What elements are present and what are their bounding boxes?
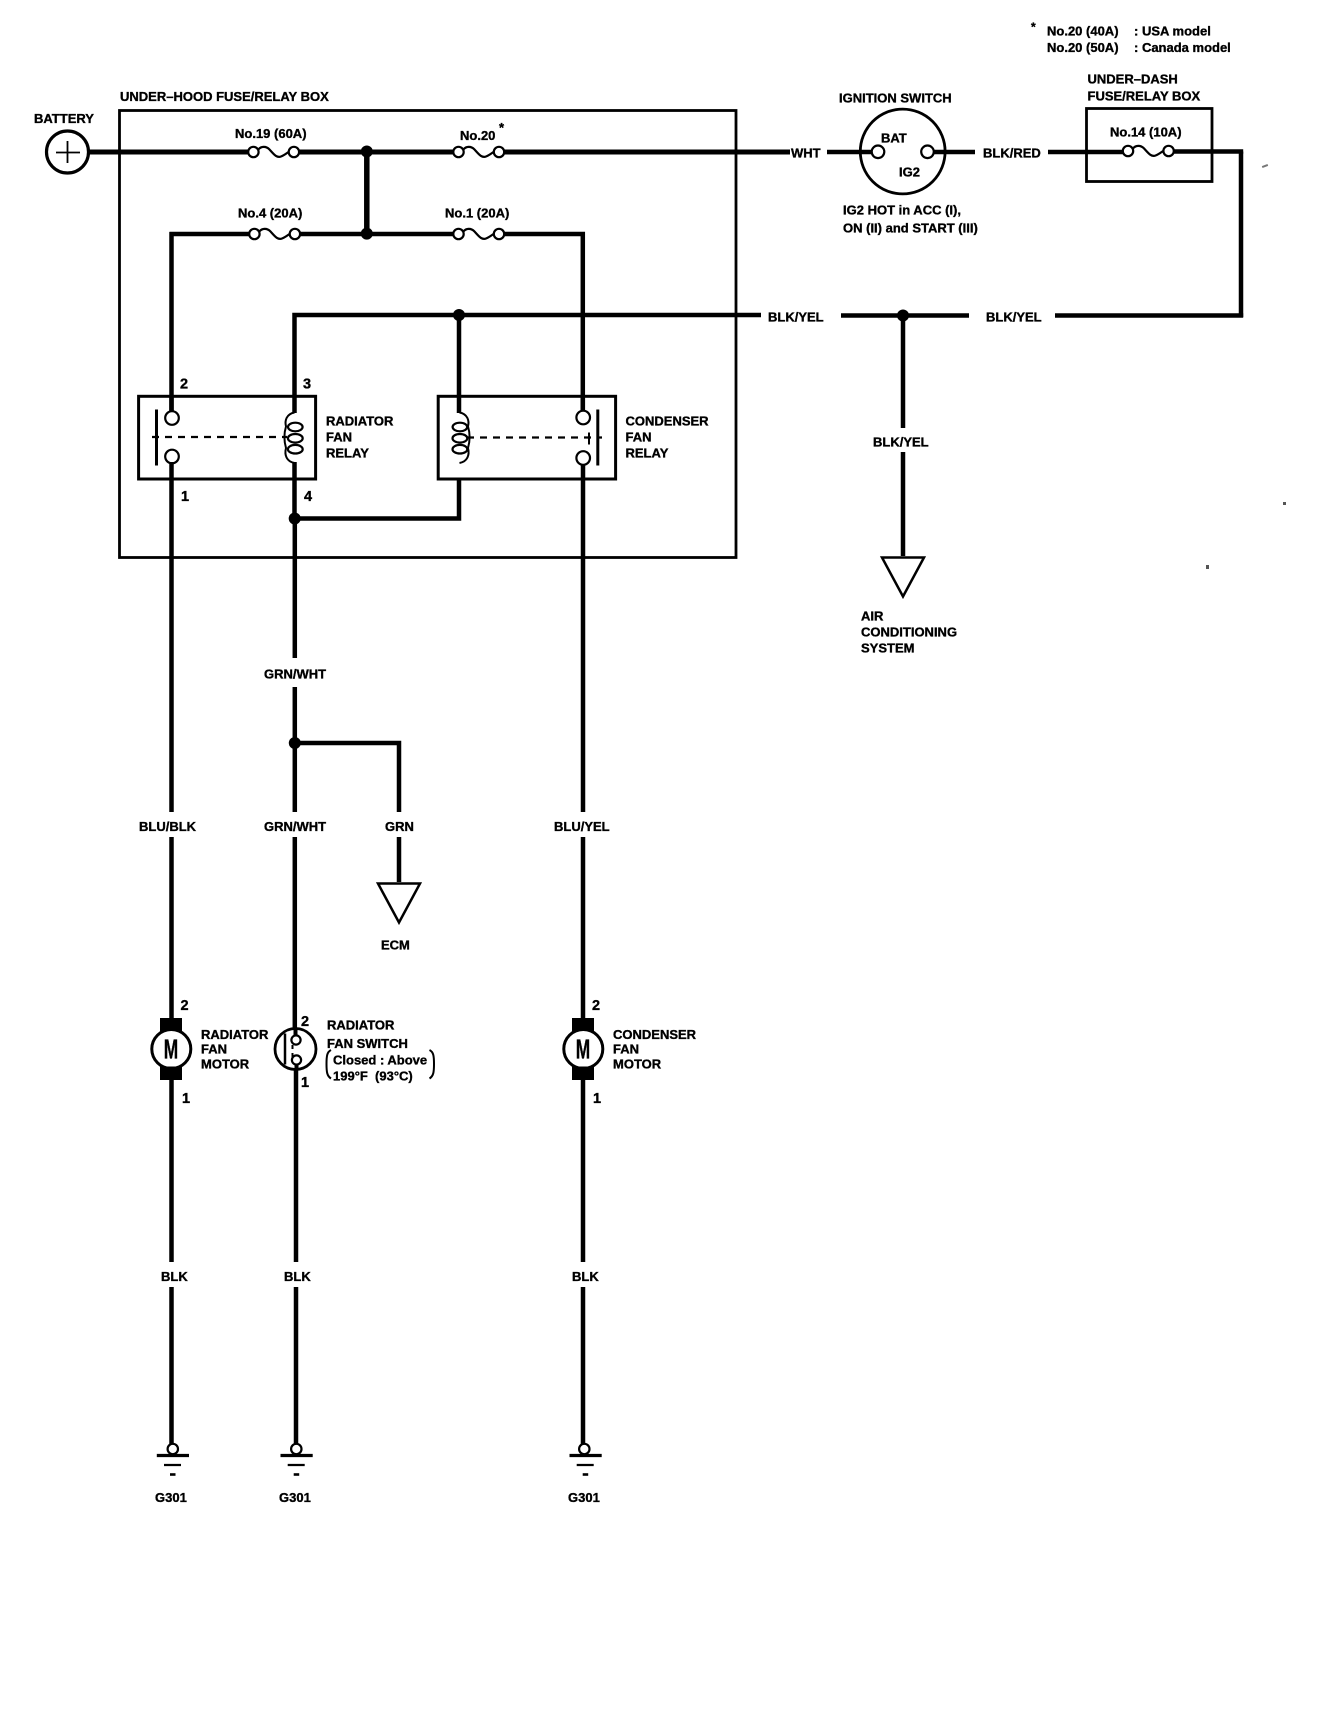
wire motor1 pin1 down bbox=[169, 1080, 174, 1262]
wire fuse No.20 to WHT label bbox=[505, 150, 791, 155]
ground G301 left bbox=[155, 1444, 189, 1505]
svg-text:M: M bbox=[164, 1033, 178, 1064]
scan smudge under-dash box bbox=[1262, 164, 1268, 168]
wire fuse No.4 to node B bbox=[300, 232, 367, 237]
wire fuse No.19 to node A bbox=[299, 150, 367, 155]
svg-text:*: * bbox=[499, 120, 505, 135]
svg-text:BLK/YEL: BLK/YEL bbox=[986, 310, 1042, 325]
wire fuse No.14 to right corner bbox=[1174, 149, 1243, 154]
wire relay1 pin2 stub bbox=[169, 396, 174, 412]
wire relay1 pin1 down bbox=[169, 462, 174, 812]
svg-text:1: 1 bbox=[182, 1091, 190, 1107]
svg-text:GRN: GRN bbox=[385, 819, 414, 834]
svg-text:2: 2 bbox=[301, 1014, 309, 1030]
svg-text:BLK: BLK bbox=[161, 1269, 188, 1284]
svg-text:BAT: BAT bbox=[881, 131, 907, 146]
fuse No.20 bbox=[453, 120, 505, 157]
svg-text:1: 1 bbox=[181, 489, 189, 505]
node E junction dot AC branch bbox=[897, 310, 909, 322]
svg-text:RADIATOR: RADIATOR bbox=[326, 414, 394, 429]
svg-text:AIR: AIR bbox=[861, 609, 884, 624]
under-dash fuse/relay box bbox=[1087, 72, 1213, 182]
svg-text:G301: G301 bbox=[279, 1490, 311, 1505]
svg-text:2: 2 bbox=[592, 998, 600, 1014]
under-hood fuse/relay box bbox=[120, 89, 737, 558]
radiator fan switch S1 bbox=[275, 1014, 434, 1091]
svg-text:MOTOR: MOTOR bbox=[613, 1057, 662, 1072]
arrow to ECM bbox=[378, 884, 420, 923]
svg-text:IG2: IG2 bbox=[899, 165, 920, 180]
svg-text:No.20: No.20 bbox=[460, 128, 495, 143]
svg-text:BLK/YEL: BLK/YEL bbox=[873, 435, 929, 450]
svg-text:BLU/YEL: BLU/YEL bbox=[554, 819, 610, 834]
svg-text:No.20 (50A): No.20 (50A) bbox=[1047, 40, 1119, 55]
svg-text:G301: G301 bbox=[155, 1490, 187, 1505]
wire condenser contact bottom down bbox=[581, 464, 586, 812]
node D junction dot coil branch bbox=[453, 309, 465, 321]
svg-text:ON (II) and START (III): ON (II) and START (III) bbox=[843, 221, 978, 236]
svg-text:BLK: BLK bbox=[284, 1269, 311, 1284]
svg-text:MOTOR: MOTOR bbox=[201, 1057, 250, 1072]
svg-text:1: 1 bbox=[301, 1075, 309, 1091]
footnote No.20 models bbox=[1031, 20, 1231, 55]
ground G301 right bbox=[568, 1444, 602, 1505]
svg-text:1: 1 bbox=[593, 1091, 601, 1107]
wire BLK/RED to under-dash box bbox=[1048, 150, 1123, 155]
wire relay1 pin4 to node C bbox=[292, 462, 297, 519]
svg-text:FAN SWITCH: FAN SWITCH bbox=[327, 1036, 408, 1051]
wire motor2 pin1 down bbox=[581, 1080, 586, 1262]
svg-text:RELAY: RELAY bbox=[326, 446, 369, 461]
svg-text:No.14 (10A): No.14 (10A) bbox=[1110, 125, 1182, 140]
svg-text:BATTERY: BATTERY bbox=[34, 111, 94, 126]
svg-text:FAN: FAN bbox=[626, 430, 652, 445]
svg-text:CONDENSER: CONDENSER bbox=[613, 1027, 697, 1042]
svg-text:UNDER–HOOD FUSE/RELAY BOX: UNDER–HOOD FUSE/RELAY BOX bbox=[120, 89, 329, 104]
wire BLK/YEL right segment bbox=[1055, 313, 1243, 318]
wire GRN/WHT upper segment bbox=[293, 519, 298, 658]
node F junction dot bbox=[289, 737, 301, 749]
wire GRN branch bbox=[295, 743, 399, 812]
svg-text:M: M bbox=[576, 1033, 590, 1064]
svg-text:RADIATOR: RADIATOR bbox=[327, 1018, 395, 1033]
wire node B to fuse No.1 bbox=[367, 232, 453, 237]
wire ignition to BLK/RED label bbox=[934, 150, 975, 155]
fuse No.1 (20A) bbox=[445, 206, 509, 240]
scan speck 1 bbox=[1283, 502, 1286, 505]
svg-text:199°F (93°C): 199°F (93°C) bbox=[333, 1069, 413, 1084]
svg-text:IGNITION SWITCH: IGNITION SWITCH bbox=[839, 91, 952, 106]
wire to ground 2 bbox=[294, 1287, 299, 1444]
ground G301 middle bbox=[279, 1444, 313, 1505]
node A junction dot bbox=[361, 146, 373, 158]
svg-text:UNDER–DASH: UNDER–DASH bbox=[1088, 72, 1178, 87]
svg-text:No.19 (60A): No.19 (60A) bbox=[235, 126, 307, 141]
wire switch pin1 down bbox=[294, 1070, 299, 1262]
svg-text:Closed : Above: Closed : Above bbox=[333, 1053, 427, 1068]
wire condenser contact top from fuse No.1 bbox=[581, 396, 586, 411]
battery bbox=[34, 111, 94, 173]
fuse No.14 (10A) bbox=[1110, 125, 1182, 157]
condenser fan relay bbox=[438, 396, 709, 479]
air conditioning system label bbox=[861, 609, 957, 656]
wire BLK/YEL mid segment bbox=[841, 313, 969, 318]
wire BLU/YEL lower bbox=[581, 837, 586, 1018]
wire fuse No.1 right corner then down bbox=[505, 234, 583, 411]
svg-text:BLU/BLK: BLU/BLK bbox=[139, 819, 197, 834]
wire AC branch down lower bbox=[901, 452, 906, 556]
wire to ground 1 bbox=[169, 1287, 174, 1444]
svg-text:2: 2 bbox=[181, 998, 189, 1014]
wire BLU/BLK lower bbox=[169, 837, 174, 1018]
svg-text:CONDITIONING: CONDITIONING bbox=[861, 625, 957, 640]
wire right side down bbox=[1239, 152, 1244, 318]
wire No.4 row left corner down bbox=[169, 232, 174, 411]
wire WHT to ignition switch bbox=[827, 150, 872, 155]
svg-text:SYSTEM: SYSTEM bbox=[861, 641, 914, 656]
svg-text:No.1 (20A): No.1 (20A) bbox=[445, 206, 509, 221]
svg-text:FAN: FAN bbox=[201, 1042, 227, 1057]
svg-text:No.20 (40A): No.20 (40A) bbox=[1047, 24, 1119, 39]
svg-text:GRN/WHT: GRN/WHT bbox=[264, 667, 326, 682]
svg-text:IG2 HOT in ACC (I),: IG2 HOT in ACC (I), bbox=[843, 203, 961, 218]
scan speck 2 bbox=[1206, 565, 1209, 569]
wire BLK/YEL row left segment bbox=[295, 315, 762, 317]
radiator fan motor M1 bbox=[152, 998, 269, 1107]
svg-text:RELAY: RELAY bbox=[626, 446, 669, 461]
wire GRN/WHT lower bbox=[293, 837, 298, 1036]
svg-text:FUSE/RELAY BOX: FUSE/RELAY BOX bbox=[1088, 89, 1201, 104]
wire to ground 3 bbox=[581, 1287, 586, 1444]
wire left to fuse No.4 bbox=[170, 232, 250, 237]
wire relay1 pin3 from BLK/YEL corner bbox=[292, 317, 297, 413]
fuse No.4 (20A) bbox=[238, 206, 302, 240]
ignition switch bbox=[839, 91, 978, 236]
svg-text:4: 4 bbox=[304, 489, 312, 505]
arrow to air conditioning system bbox=[882, 558, 924, 597]
svg-text:: USA model: : USA model bbox=[1134, 24, 1211, 39]
fuse No.19 (60A) bbox=[235, 126, 307, 157]
wire condenser coil stub top bbox=[457, 317, 462, 413]
condenser fan motor M2 bbox=[564, 998, 697, 1107]
wire node A to fuse No.20 bbox=[367, 150, 453, 155]
svg-text:WHT: WHT bbox=[791, 146, 821, 161]
radiator fan relay bbox=[139, 377, 394, 506]
svg-text:3: 3 bbox=[303, 377, 311, 393]
node B junction dot bbox=[361, 228, 373, 240]
svg-text:FAN: FAN bbox=[326, 430, 352, 445]
wire battery to fuse No.19 bbox=[89, 150, 249, 155]
wire AC branch down upper bbox=[901, 316, 906, 429]
svg-text:ECM: ECM bbox=[381, 938, 410, 953]
svg-text:BLK/YEL: BLK/YEL bbox=[768, 310, 824, 325]
wire GRN to ECM arrow bbox=[397, 837, 402, 882]
node C junction dot bbox=[289, 513, 301, 525]
svg-text:CONDENSER: CONDENSER bbox=[626, 414, 710, 429]
svg-text:FAN: FAN bbox=[613, 1042, 639, 1057]
svg-text:No.4 (20A): No.4 (20A) bbox=[238, 206, 302, 221]
wire GRN/WHT below label to node F bbox=[293, 687, 298, 812]
svg-text:*: * bbox=[1031, 20, 1036, 34]
svg-text:G301: G301 bbox=[568, 1490, 600, 1505]
svg-text:BLK/RED: BLK/RED bbox=[983, 146, 1041, 161]
wire node C to condenser relay coil bbox=[295, 479, 460, 519]
svg-text:2: 2 bbox=[180, 377, 188, 393]
svg-text:RADIATOR: RADIATOR bbox=[201, 1027, 269, 1042]
svg-text:BLK: BLK bbox=[572, 1269, 599, 1284]
svg-text:: Canada model: : Canada model bbox=[1134, 40, 1231, 55]
wire node A to node B vertical bbox=[364, 152, 370, 234]
svg-text:GRN/WHT: GRN/WHT bbox=[264, 819, 326, 834]
